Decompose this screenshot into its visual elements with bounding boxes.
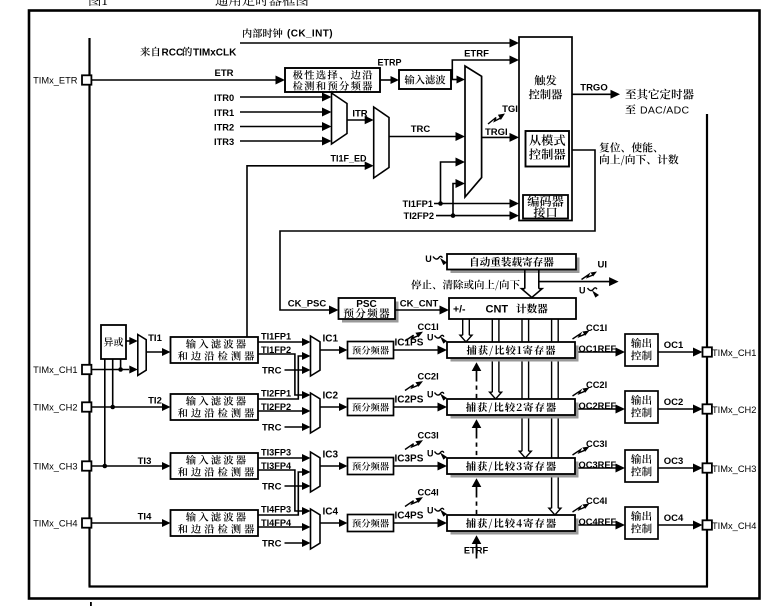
- svg-text:TI2FP2: TI2FP2: [261, 402, 291, 412]
- CNT counter box: [449, 298, 576, 319]
- svg-text:TRC: TRC: [262, 423, 282, 434]
- svg-text:TGI: TGI: [502, 104, 518, 115]
- wire CK_CNT: [395, 309, 441, 311]
- IC2 mux: [311, 393, 321, 433]
- trigger controller box 触发控制器: [519, 37, 572, 221]
- wire ITR2: [240, 126, 323, 128]
- svg-text:TIMx_CH2: TIMx_CH2: [33, 403, 77, 413]
- wire TI1 to filter: [146, 351, 163, 353]
- capture/compare register box 1: [451, 346, 579, 362]
- wire TRC stub channel 1: [285, 369, 303, 371]
- junction TI2FP2: [451, 213, 456, 218]
- wire TRC stub channel 2: [285, 426, 303, 428]
- output control box channel 2: [625, 391, 658, 423]
- wire IC1 to prescaler: [320, 349, 340, 351]
- svg-text:U: U: [427, 333, 434, 343]
- capture arrow up into register 4: [472, 535, 482, 544]
- wire TRGI: [482, 136, 511, 138]
- svg-text:TIMx_CH4: TIMx_CH4: [712, 521, 756, 531]
- svg-text:ITR0: ITR0: [214, 93, 234, 103]
- svg-text:CC4I: CC4I: [586, 496, 607, 506]
- PSC prescaler box: [342, 302, 399, 323]
- hollow arrow ARR to CNT: [524, 270, 526, 289]
- svg-text:IC4PS: IC4PS: [395, 511, 424, 522]
- wire OC3 to pin: [658, 467, 694, 469]
- ITR selection mux: [332, 93, 348, 144]
- pin TIMx_CH4 output: [703, 520, 712, 529]
- svg-text:TIMxCLK: TIMxCLK: [193, 48, 237, 59]
- svg-text:ETRP: ETRP: [377, 58, 401, 68]
- wire ITR3: [240, 140, 323, 142]
- prescaler box channel 3: [348, 458, 394, 475]
- page artifact tick bottom: [90, 602, 92, 606]
- wire TI4FP3 up to IC3 mux: [258, 472, 302, 515]
- wire TI3FP3 to IC3 mux: [258, 457, 302, 459]
- svg-text:TRC: TRC: [262, 366, 282, 377]
- svg-text:ITR3: ITR3: [214, 137, 234, 147]
- junction XOR-CH3: [103, 464, 108, 469]
- svg-text:CK_CNT: CK_CNT: [400, 299, 439, 310]
- pin TIMx_CH4: [82, 518, 91, 527]
- XOR box 异或: [101, 325, 126, 359]
- wire slave mode control loop: [280, 150, 595, 310]
- wire TI1FP2 down to IC2 mux: [258, 354, 302, 395]
- wire TI3FP4 down to IC4 mux: [258, 470, 302, 511]
- pin TIMx_CH2 output: [703, 404, 712, 413]
- wire TI2FP1 up to IC1 mux: [258, 356, 302, 399]
- wire TI2: [91, 406, 163, 408]
- wire OC4 to pin: [658, 524, 694, 526]
- svg-text:TIMx_CH4: TIMx_CH4: [33, 519, 77, 529]
- svg-text:ETR: ETR: [215, 68, 234, 79]
- svg-text:ETRF: ETRF: [464, 49, 489, 60]
- input filter box channel 4: [171, 510, 259, 536]
- svg-text:TI4FP3: TI4FP3: [261, 505, 291, 515]
- svg-text:IC2PS: IC2PS: [395, 395, 424, 406]
- prescaler box channel 4: [348, 515, 394, 532]
- svg-text:UI: UI: [598, 260, 608, 271]
- wire OC2REF: [579, 408, 617, 410]
- svg-text:CC2I: CC2I: [418, 372, 439, 382]
- svg-text:ITR2: ITR2: [214, 123, 234, 133]
- timer block boundary bottom: [89, 585, 709, 587]
- XOR input verticals: [104, 359, 106, 466]
- svg-text:TI3: TI3: [138, 456, 152, 467]
- svg-text:TI3FP3: TI3FP3: [261, 448, 291, 458]
- timer block boundary right: [706, 114, 708, 587]
- svg-text:TRC: TRC: [262, 539, 282, 550]
- wire ITR0: [240, 96, 323, 98]
- wire TI4: [91, 522, 163, 524]
- wire TI1FP1 to encoder and mux: [434, 203, 511, 205]
- junction XOR-CH1: [118, 367, 123, 372]
- capture/compare register box 3: [451, 462, 579, 478]
- wire IC3 to prescaler: [320, 465, 340, 467]
- wire OC2 to pin: [658, 408, 694, 410]
- IC3 mux: [311, 452, 321, 492]
- output control box channel 3: [625, 450, 658, 482]
- wire ETR from pin: [91, 79, 277, 81]
- encoder interface box 编码器接口: [523, 195, 568, 219]
- wire TRC stub channel 3: [285, 485, 303, 487]
- wire ETRF up and to trigger controller: [452, 60, 511, 80]
- svg-text:CC2I: CC2I: [586, 380, 607, 390]
- IC1 mux: [311, 336, 321, 376]
- capture arrow up into register 2: [472, 419, 482, 428]
- CC1I left zigzag: [405, 335, 418, 341]
- label 至其它定时器: [625, 89, 693, 100]
- svg-text:TI1FP2: TI1FP2: [261, 345, 291, 355]
- svg-text:TIMx_CH1: TIMx_CH1: [712, 348, 756, 358]
- svg-text:TI2FP2: TI2FP2: [404, 211, 434, 221]
- svg-text:U: U: [427, 449, 434, 459]
- wire TI1F_ED: [247, 166, 365, 337]
- svg-text:TIMx_ETR: TIMx_ETR: [33, 76, 78, 86]
- wire OC3REF: [579, 467, 617, 469]
- polarity/edge-detector box 极性选择、边沿检测和预分频器: [285, 68, 380, 92]
- svg-text:OC2REF: OC2REF: [579, 401, 617, 411]
- label 至 DAC/ADC: [625, 104, 635, 114]
- CC2I left zigzag: [405, 385, 418, 391]
- svg-text:OC1: OC1: [664, 340, 684, 351]
- svg-text:TI1F_ED: TI1F_ED: [330, 154, 367, 164]
- svg-text:TIMx_CH3: TIMx_CH3: [33, 462, 77, 472]
- svg-text:IC1PS: IC1PS: [395, 338, 424, 349]
- wire TRC to trigger mux: [389, 136, 457, 138]
- svg-text:IC1: IC1: [323, 334, 339, 345]
- input filter box channel 1: [171, 337, 259, 363]
- svg-text:OC3REF: OC3REF: [579, 460, 617, 470]
- svg-text:OC1REF: OC1REF: [579, 344, 617, 354]
- svg-text:OC3: OC3: [664, 456, 684, 467]
- capture/compare register box 4: [451, 519, 579, 535]
- wire TI4FP4 to IC4 mux: [258, 526, 302, 528]
- svg-text:TRGO: TRGO: [580, 82, 607, 93]
- svg-text:CC3I: CC3I: [418, 431, 439, 441]
- svg-text:TI1FP1: TI1FP1: [403, 199, 433, 209]
- pin TIMx_CH1: [82, 365, 91, 374]
- wire ITR to TRC mux: [347, 119, 366, 121]
- wire ITR1: [240, 111, 323, 113]
- capture arrow up into register 3: [472, 478, 482, 487]
- svg-text:TI1FP1: TI1FP1: [261, 332, 291, 342]
- input filter box channel 3: [171, 453, 259, 479]
- CC3I left zigzag: [405, 444, 418, 450]
- svg-text:TIMx_CH2: TIMx_CH2: [712, 405, 756, 415]
- TRC mux: [374, 107, 389, 178]
- svg-text:TI2: TI2: [148, 396, 162, 407]
- wire OC4REF: [579, 524, 617, 526]
- wire TI1FP1 to IC1 mux: [258, 341, 302, 343]
- auto-reload register box 自动重装载寄存器: [451, 258, 580, 274]
- svg-text:CC4I: CC4I: [418, 488, 439, 498]
- svg-text:TRGI: TRGI: [485, 127, 508, 138]
- svg-text:U: U: [579, 286, 586, 296]
- svg-text:ITR: ITR: [352, 109, 367, 120]
- pin TIMx_CH1 output: [703, 347, 712, 356]
- svg-text:CC3I: CC3I: [586, 439, 607, 449]
- IC4 mux: [311, 509, 321, 549]
- wire update event right: [539, 281, 610, 283]
- capture arrow up into register 1: [472, 362, 482, 371]
- pin TIMx_CH3 output: [703, 463, 712, 472]
- wire TI2FP2 to encoder and mux: [436, 215, 511, 217]
- pin TIMx_ETR: [82, 75, 91, 84]
- svg-text:TIMx_CH1: TIMx_CH1: [33, 365, 77, 375]
- wire IC4PS to register: [394, 522, 439, 524]
- wire IC2 to prescaler: [320, 406, 340, 408]
- hollow arrow CNT to capture/compare register 2: [491, 319, 493, 393]
- wire TRC stub channel 4: [285, 542, 303, 544]
- svg-text:OC4REF: OC4REF: [579, 517, 617, 527]
- svg-text:+/-: +/-: [453, 304, 466, 316]
- clipped title fragment 图1: [90, 0, 108, 6]
- wire IC2PS to register: [394, 406, 439, 408]
- capture/compare register box 2: [451, 403, 579, 419]
- svg-text:CC1I: CC1I: [586, 323, 607, 333]
- CC1I right zigzag: [573, 334, 585, 339]
- svg-text:TI2FP1: TI2FP1: [261, 389, 291, 399]
- wire TI3: [91, 465, 163, 467]
- wire TRGO: [572, 93, 612, 95]
- wire IC1PS to register: [394, 349, 439, 351]
- svg-text:IC3: IC3: [323, 450, 339, 461]
- trigger input mux: [465, 66, 482, 197]
- input filter box 输入滤波: [399, 70, 451, 89]
- hollow arrow CNT to capture/compare register 1: [462, 319, 464, 336]
- svg-text:(CK_INT): (CK_INT): [287, 29, 333, 40]
- UI interrupt zigzag: [582, 275, 593, 280]
- hollow arrow CNT to capture/compare register 3: [521, 319, 523, 452]
- svg-text:CK_PSC: CK_PSC: [288, 299, 327, 310]
- svg-text:CC1I: CC1I: [418, 322, 439, 332]
- clipped title fragment 通用定时器框图: [215, 0, 308, 6]
- CC4I left zigzag: [405, 501, 418, 507]
- wire IC3PS to register: [394, 465, 439, 467]
- svg-text:TRC: TRC: [262, 482, 282, 493]
- CC2I right zigzag: [573, 391, 585, 396]
- svg-text:IC2: IC2: [323, 391, 339, 402]
- wire IC4 to prescaler: [320, 522, 340, 524]
- junction XOR-CH2: [110, 405, 115, 410]
- label 内部时钟 (CK_INT): [243, 28, 282, 38]
- svg-text:ITR1: ITR1: [214, 108, 234, 118]
- junction TI1FP1: [438, 201, 443, 206]
- TGI interrupt zigzag: [488, 118, 500, 125]
- CC4I right zigzag: [573, 507, 585, 512]
- svg-text:OC4: OC4: [664, 513, 684, 524]
- input filter box channel 2: [171, 394, 259, 420]
- TI1 mux: [138, 335, 146, 376]
- svg-text:RCC: RCC: [162, 48, 184, 59]
- wire filter to trigger mux: [451, 79, 458, 81]
- svg-text:TI3FP4: TI3FP4: [261, 461, 292, 471]
- svg-text:CNT: CNT: [486, 304, 509, 316]
- wire XOR output: [126, 340, 130, 342]
- prescaler box channel 1: [348, 342, 394, 359]
- wire TI1 pin line: [91, 369, 129, 371]
- hollow arrow CNT to capture/compare register 4: [551, 319, 553, 509]
- svg-text:IC3PS: IC3PS: [395, 454, 424, 465]
- output control box channel 4: [625, 507, 658, 539]
- wire ETRP: [381, 79, 392, 81]
- output control box channel 1: [625, 334, 658, 366]
- slave mode controller box 从模式控制器: [526, 131, 570, 167]
- label 停止、清除或向上/向下: [411, 280, 520, 291]
- svg-text:TRC: TRC: [411, 124, 431, 135]
- svg-text:IC4: IC4: [323, 507, 339, 518]
- wire OC1REF: [579, 351, 617, 353]
- svg-text:U: U: [427, 506, 434, 516]
- svg-text:DAC/ADC: DAC/ADC: [640, 105, 689, 117]
- timer block boundary left: [88, 38, 90, 587]
- svg-text:TI4: TI4: [138, 512, 152, 523]
- svg-text:OC2: OC2: [664, 397, 684, 408]
- svg-text:TI4FP4: TI4FP4: [261, 518, 292, 528]
- wire CK_INT to trigger controller: [240, 42, 511, 44]
- svg-text:U: U: [427, 390, 434, 400]
- wire TI2FP2 to IC2 mux: [258, 410, 302, 412]
- CC3I right zigzag: [573, 450, 585, 455]
- label 复位、使能、向上/向下、计数: [600, 142, 657, 152]
- svg-text:U: U: [425, 254, 432, 264]
- svg-text:TI1: TI1: [148, 333, 162, 344]
- pin TIMx_CH2: [82, 402, 91, 411]
- label 来自RCC的TIMxCLK: [140, 47, 159, 57]
- svg-text:TIMx_CH3: TIMx_CH3: [712, 464, 756, 474]
- wire OC1 to pin: [658, 351, 694, 353]
- pin TIMx_CH3: [82, 461, 91, 470]
- prescaler box channel 2: [348, 399, 394, 416]
